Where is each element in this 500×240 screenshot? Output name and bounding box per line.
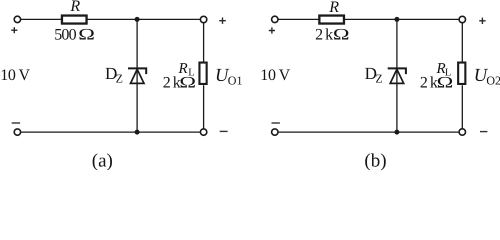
wire load bottom (b) <box>461 85 463 129</box>
terminal input - (b) <box>272 129 278 135</box>
svg-text:Ω: Ω <box>179 74 196 91</box>
node junction top (b) <box>394 17 399 22</box>
terminal output + (a) <box>200 16 206 22</box>
svg-text:(a): (a) <box>92 151 113 170</box>
svg-text:Ω: Ω <box>333 26 350 43</box>
polarity - input (a) <box>12 122 20 124</box>
svg-text:10 V: 10 V <box>0 67 30 84</box>
polarity + output (b) <box>479 18 485 24</box>
wire top-left (b) <box>278 18 319 20</box>
svg-text:Z: Z <box>116 72 123 86</box>
svg-text:Ω: Ω <box>78 27 95 44</box>
polarity + input (a) <box>11 27 17 33</box>
zener diode DZ (a) cathode bar <box>128 68 146 74</box>
wire top-left (a) <box>21 18 62 20</box>
resistor RL (b) <box>458 63 465 84</box>
svg-text:O2: O2 <box>486 74 500 88</box>
svg-text:O1: O1 <box>228 74 243 88</box>
polarity - output (b) <box>480 131 487 133</box>
svg-text:10 V: 10 V <box>260 67 290 84</box>
wire top-middle (b) <box>345 18 459 20</box>
terminal output - (a) <box>200 129 206 135</box>
wire load top (b) <box>461 23 463 62</box>
terminal input + (b) <box>272 16 278 22</box>
polarity - input (b) <box>272 122 280 124</box>
polarity - output (a) <box>220 130 228 132</box>
polarity + input (b) <box>269 27 275 33</box>
terminal input + (a) <box>14 16 20 22</box>
resistor RL (a) <box>199 63 206 84</box>
wire bottom (a) <box>21 131 200 133</box>
wire top-middle (a) <box>87 18 200 20</box>
zener diode DZ (b) cathode bar <box>388 68 406 74</box>
svg-text:R: R <box>69 0 80 15</box>
polarity + output (a) <box>219 18 226 24</box>
zener diode DZ (b) triangle <box>390 69 404 83</box>
resistor R (b) <box>319 16 344 24</box>
node junction bottom (b) <box>394 130 399 135</box>
wire bottom (b) <box>278 131 458 133</box>
svg-text:Z: Z <box>375 72 382 86</box>
svg-text:2 k: 2 k <box>420 74 438 91</box>
svg-text:Ω: Ω <box>437 74 454 91</box>
svg-text:R: R <box>328 0 339 16</box>
wire load top (a) <box>203 23 205 62</box>
wire zener branch (b) <box>396 19 398 132</box>
wire load bottom (a) <box>203 85 205 129</box>
svg-text:(b): (b) <box>364 151 386 170</box>
wire zener branch (a) <box>136 19 138 132</box>
terminal input - (a) <box>14 129 20 135</box>
terminal output - (b) <box>459 129 465 135</box>
svg-text:2 k: 2 k <box>163 74 181 91</box>
node junction bottom (a) <box>135 130 140 135</box>
svg-text:2 k: 2 k <box>315 26 333 43</box>
terminal output + (b) <box>459 16 465 22</box>
resistor R (a) <box>62 16 87 24</box>
node junction top (a) <box>135 17 140 22</box>
zener diode DZ (a) triangle <box>131 69 145 83</box>
svg-text:500: 500 <box>54 27 76 44</box>
